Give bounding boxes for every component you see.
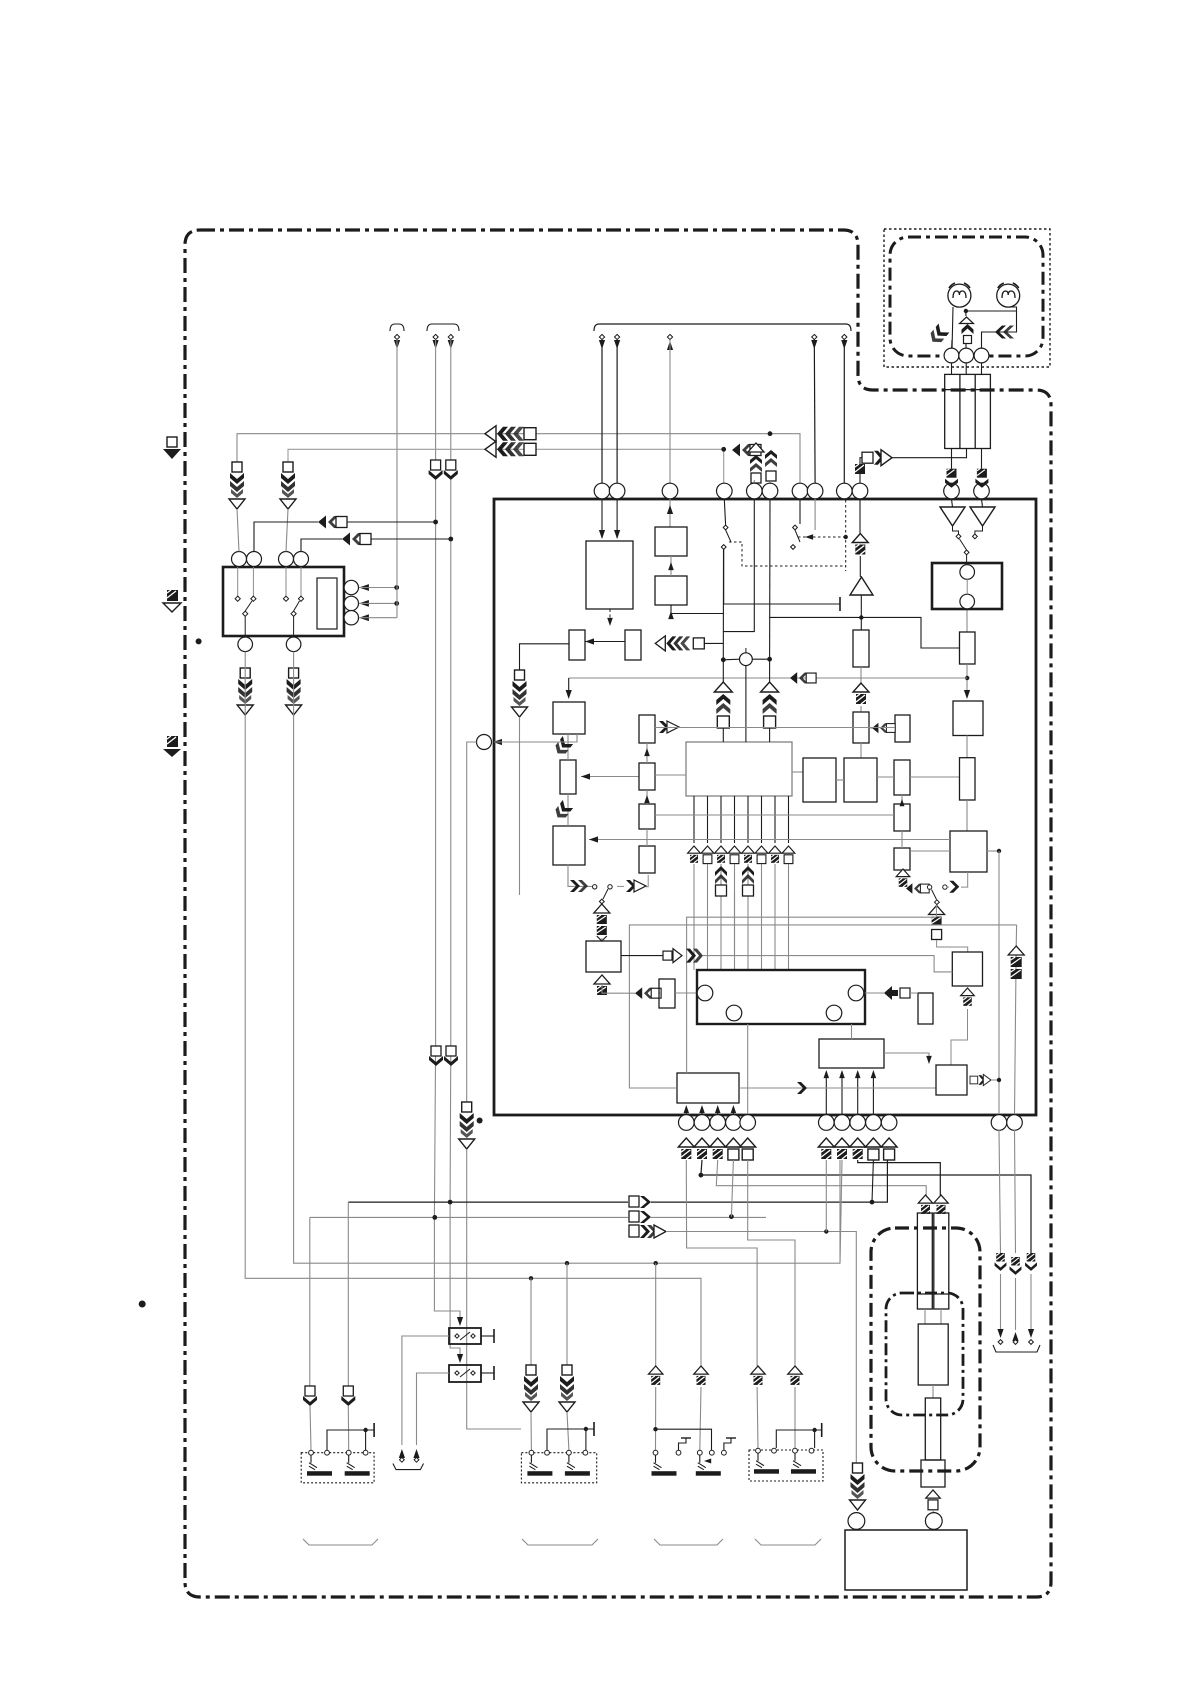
terminal sym under R18: [896, 869, 910, 887]
net y1202 cont: [651, 1160, 887, 1202]
headphone unit dotted enclosure: [884, 229, 1050, 367]
terminal sym row 3: [715, 846, 728, 863]
wire pin747 up: [747, 1024, 749, 1114]
harness W3-2 arrow: [614, 340, 620, 349]
drop g2s2: [566, 1263, 568, 1365]
terminal sym T2 up: [934, 1195, 948, 1214]
terminal sym row 6: [755, 846, 768, 864]
g3 switch 1: [652, 1450, 677, 1475]
U4 pin b: [726, 1005, 742, 1021]
R30 riser 3: [857, 1072, 859, 1114]
bus y678: [569, 677, 968, 679]
U2 output line 7 cont: [774, 864, 776, 970]
connector CN-C2: [280, 462, 296, 509]
wire R10 to U2: [655, 774, 686, 776]
PSU pin 2: [925, 1513, 942, 1530]
net y1248 (pin686 to g4L): [686, 1160, 757, 1366]
U2 output line 6: [761, 796, 763, 843]
wire symH down: [860, 706, 862, 712]
junction y1263 b: [654, 1261, 658, 1265]
U2 output line 3: [720, 796, 722, 843]
lp switch R lever: [932, 890, 937, 900]
connector sym dar mid: [686, 949, 703, 963]
U3 pin b: [960, 594, 975, 609]
dangler K end 2: [414, 1457, 419, 1462]
mode switch block S1: [223, 567, 344, 636]
IC top pin 5: [747, 483, 763, 499]
wire F2 to pin754: [753, 480, 755, 483]
g4 drop: [814, 1430, 816, 1448]
terminal sym R2: [834, 1138, 850, 1159]
S1 pin right 2: [344, 596, 358, 610]
hp jack block divider v1: [959, 374, 961, 448]
U2 output line 2 cont: [707, 864, 709, 970]
S1 switch a contact 1: [237, 567, 239, 596]
block R23: [953, 701, 983, 736]
lp filter switch R contact1: [927, 885, 931, 889]
R30 riser arrow 1: [824, 1070, 830, 1078]
wire W3-1 vertical: [601, 340, 603, 483]
IC top pin 12: [974, 483, 990, 499]
wire U2 to R14: [792, 771, 803, 773]
junction x999: [997, 849, 1001, 853]
junction c1: [721, 657, 726, 662]
g1 contact 2: [325, 1450, 330, 1455]
g1 junction: [363, 1428, 367, 1432]
drop g2s1: [530, 1278, 532, 1365]
g4 cap bar: [821, 1423, 823, 1437]
connector CN-S1a: [303, 1386, 317, 1406]
K1 lever: [460, 1332, 470, 1340]
headphone sub-board dash-dot box: [890, 237, 1043, 356]
g1 switch 1: [307, 1450, 332, 1475]
wire mid to pin860: [860, 458, 862, 483]
harness bracket W2: [427, 324, 459, 331]
wire into R28: [659, 992, 661, 994]
wire G3a to sw: [655, 1387, 657, 1450]
wire lp L out: [617, 885, 624, 887]
bottom-right motor unit dash-dot box: [871, 1228, 980, 1471]
connector CN-L2 (to board): [485, 441, 536, 457]
IC bottom pin F2: [1007, 1115, 1023, 1131]
wire amp down: [860, 595, 862, 630]
U2 output line 8: [788, 796, 790, 843]
wire CN-D1 tail: [347, 521, 436, 523]
g4 bridge: [776, 1430, 821, 1448]
arrow into R32: [926, 1056, 932, 1064]
arrow R11 up: [644, 795, 650, 803]
junction CN-D1: [433, 520, 438, 525]
block R21: [895, 715, 910, 742]
hp jack block divider v2: [974, 374, 976, 448]
IC top pin 11: [944, 483, 960, 499]
wire jack pin1 down: [951, 363, 953, 375]
junction speaker node: [964, 309, 968, 313]
junction dot A: [394, 585, 399, 590]
block R11: [639, 804, 655, 829]
U2 output line 5: [747, 796, 749, 843]
S1 pin top 3: [279, 552, 294, 567]
wire chls to contact: [927, 887, 929, 888]
block R15: [844, 758, 877, 802]
net y1162: [858, 1160, 941, 1196]
wire R9-R10: [646, 743, 648, 763]
connector CN-K3 (long): [629, 1225, 666, 1238]
wire col1 to U2: [722, 728, 724, 742]
junction y1217 b: [729, 1214, 734, 1219]
connector CN-K2: [629, 1211, 651, 1223]
U4 pin c: [826, 1005, 842, 1021]
connector CN-B2: [444, 1046, 458, 1066]
dangler arrow 1: [997, 1329, 1003, 1338]
edge connector M3: [163, 736, 181, 757]
IC bottom pin R5: [881, 1115, 897, 1131]
terminal ext col5: [742, 866, 754, 896]
wire W2a vertical upper: [435, 340, 437, 460]
hp jack pin 3: [974, 348, 989, 363]
wire G4b to sw: [794, 1387, 796, 1448]
wire y678 corner: [568, 678, 570, 696]
main IC block U1: [494, 499, 1036, 1115]
dangler arrow 3: [1028, 1329, 1034, 1338]
arrow into R23: [964, 690, 970, 699]
wire node left: [723, 658, 739, 661]
wire R4 to CN-E: [520, 644, 569, 670]
wire right-pin2 to node: [359, 602, 397, 604]
U4 pin a: [697, 985, 713, 1001]
g1 cap bar: [373, 1423, 375, 1437]
R1 dashed arrow: [607, 618, 613, 626]
SW-B dotted route: [798, 536, 846, 538]
wire SW-A down to cap: [724, 550, 840, 605]
wire R33 down: [951, 1009, 968, 1065]
wire R32 to x999: [991, 1079, 999, 1081]
connector CN-S2a: [523, 1365, 539, 1412]
K1 out right: [481, 1335, 494, 1337]
dangler sym 3: [1025, 1253, 1037, 1271]
wire bus y449: [288, 449, 724, 483]
wire jack pin2 down: [965, 363, 967, 375]
wire R20-R21 link: [869, 727, 872, 729]
dangler bracket: [993, 1345, 1040, 1352]
harness W3-4 arrow: [811, 340, 817, 349]
bus y617: [770, 617, 960, 648]
wire pin860 down: [859, 499, 861, 533]
K2 contact b: [471, 1371, 475, 1375]
wire jack out R: [981, 449, 983, 469]
harness bracket W1: [390, 324, 404, 331]
harness W2a arrow: [433, 340, 439, 349]
dangler K end 1: [400, 1457, 405, 1462]
terminal sym G (on amp input): [852, 534, 868, 555]
fan wire c branch: [734, 892, 736, 956]
g3 switch 2: [696, 1450, 721, 1475]
connector CN-H: [459, 1102, 475, 1149]
g3 arrow: [704, 1459, 711, 1464]
K1 terminal bar: [493, 1329, 495, 1343]
wire F1 dangler: [999, 1130, 1001, 1253]
wire sym to R27: [601, 938, 603, 941]
block R6: [553, 702, 585, 734]
dotted vertical x845: [845, 500, 847, 571]
wire U4 to R29: [865, 992, 884, 994]
block R12: [639, 846, 655, 873]
junction y434: [768, 431, 773, 436]
wire R10-R11: [646, 790, 648, 804]
edge connector M1: [163, 437, 181, 459]
wire pin602 into R1: [601, 499, 603, 538]
wire R5 to R4: [585, 641, 625, 643]
drop g3L: [655, 1263, 657, 1366]
tall block M1a: [917, 1213, 932, 1309]
connector CN-L1 (to board): [485, 426, 536, 442]
wire lp R up: [947, 886, 949, 888]
S1 pin top 2: [247, 552, 262, 567]
wire S1a to sw: [310, 1406, 311, 1450]
K2 terminal bar: [493, 1366, 495, 1380]
net y1240 (pin747 to g4R): [748, 1160, 795, 1366]
connector sym U4-R29: [884, 986, 910, 1000]
chevron on pin860 wire: [855, 464, 865, 474]
net y1278: [245, 652, 701, 1366]
R30 riser 4: [872, 1072, 874, 1114]
g2 cap bar: [593, 1422, 595, 1436]
junction y1263 a: [565, 1261, 569, 1265]
block B2: [655, 576, 687, 605]
IC left pin: [477, 735, 492, 750]
R31 riser 3: [717, 1107, 719, 1114]
S1 switch a diamond 1: [235, 596, 240, 601]
block R9: [639, 715, 655, 743]
S1 pin right 3: [344, 611, 358, 625]
g2 junction: [584, 1427, 588, 1431]
net y1202: [348, 1201, 628, 1203]
S1 switch a pole: [243, 611, 248, 616]
K2 lever: [460, 1369, 470, 1377]
connector CN-G1: [945, 469, 958, 488]
M1 divider: [917, 1293, 948, 1295]
U2 output line 5 cont: [747, 864, 749, 970]
wire W3-4 vertical: [813, 340, 816, 483]
g2 drop: [585, 1429, 587, 1450]
IC bottom pin R2: [834, 1115, 850, 1131]
R31 riser 4: [732, 1107, 734, 1114]
wire CN-E down: [519, 717, 521, 895]
connector sym R9 right: [659, 721, 679, 733]
S1 switch a diamond 2: [251, 596, 256, 601]
group1 dotted box: [301, 1453, 374, 1483]
IC bottom pin L2: [694, 1115, 710, 1131]
connector CN-P (to PSU): [850, 1463, 866, 1510]
terminal sym row 2: [701, 846, 714, 864]
junction amp/y617: [859, 615, 863, 619]
K1 out left: [402, 1336, 449, 1445]
R31 riser arrow 2: [699, 1105, 705, 1113]
lp switch R pole: [935, 900, 940, 905]
S1 switch b diamond 1: [283, 596, 288, 601]
hp resistor sym L: [927, 324, 949, 347]
wire hp M branch: [965, 343, 967, 351]
mute sw contact L: [956, 534, 961, 539]
g2 contact 4: [583, 1450, 588, 1455]
wire sym to R29b: [910, 992, 918, 994]
wire lp L out2: [646, 875, 648, 887]
net y1175: [701, 1160, 1031, 1253]
wire x999 down: [998, 851, 1000, 1114]
terminal sym T1 up: [918, 1195, 932, 1214]
net y1232 to PSU: [666, 1232, 856, 1464]
g3 contact 4: [709, 1450, 714, 1455]
junction c2: [767, 657, 772, 662]
junction y1202 a: [448, 1200, 453, 1205]
connector CN-A2: [444, 460, 458, 480]
g2 switch 2: [565, 1450, 590, 1475]
wire pin617 into R1: [616, 499, 618, 538]
S1 right pin2 arrow: [359, 600, 369, 607]
arrow into B2: [668, 611, 674, 619]
block R33: [952, 952, 982, 986]
g1 switch 2: [345, 1450, 370, 1475]
K2 contact a: [455, 1371, 459, 1375]
terminal sym row 4: [728, 846, 741, 864]
wire leftpin internal: [494, 734, 577, 742]
wire x1014 down: [1015, 925, 1017, 1114]
connector CN-G3 (mid, double arrow right): [862, 450, 892, 466]
hp jack block divider h: [945, 389, 991, 391]
dangler arrow 2: [1012, 1332, 1018, 1341]
wire bus y434 to pin: [770, 434, 800, 483]
mute sw contact R: [973, 534, 978, 539]
harness end W3-3: [667, 334, 672, 339]
wire R7-R8: [567, 794, 569, 826]
vert chevron symbol F3: [765, 450, 777, 481]
R31 riser arrow 1: [684, 1105, 690, 1113]
terminal sym R4: [865, 1138, 881, 1160]
S1 pin top 1: [232, 552, 247, 567]
g3 jog a: [679, 1438, 687, 1450]
terminal sym row 1: [688, 846, 701, 863]
R30 riser arrow 4: [871, 1070, 877, 1078]
wire S1b to sw: [347, 1406, 349, 1450]
wire hp L branch: [951, 340, 954, 351]
wire jack out M: [884, 449, 967, 458]
wire pin754 down: [723, 499, 754, 632]
sym below R27: [594, 975, 610, 995]
R30 riser 1: [825, 1072, 827, 1114]
wire CN-H down: [467, 1149, 521, 1429]
K1 contact a: [455, 1334, 459, 1338]
S1 pin top 4: [294, 552, 309, 567]
wire R16 right: [910, 776, 960, 778]
bus y839: [589, 839, 950, 841]
connector sym on x1016: [1008, 946, 1024, 979]
relay box K2: [449, 1365, 481, 1382]
wire pin873 drop: [872, 1160, 873, 1202]
block R27: [586, 941, 621, 972]
terminal sym H: [853, 683, 869, 704]
terminal sym G3a: [649, 1366, 663, 1385]
wire jack out L: [951, 449, 953, 469]
wire pole chain: [937, 940, 968, 952]
connector sym R32 out: [970, 1074, 991, 1085]
wire pin770 down: [769, 499, 771, 659]
hp resistor sym R: [995, 326, 1014, 339]
g2 contact 2: [545, 1450, 550, 1455]
U2 output line 1: [693, 796, 695, 843]
arrow into R8: [589, 836, 598, 842]
wire G3b to sw: [700, 1387, 701, 1450]
wire pin2 riser: [254, 522, 318, 552]
wire pin4 riser: [301, 539, 342, 552]
harness end W3-4: [812, 334, 817, 339]
wire leftpin external: [467, 742, 477, 1102]
arrow into relay box1: [457, 1317, 463, 1326]
pcb marker dot 1: [196, 638, 202, 644]
U2 output line 8 cont: [788, 864, 790, 970]
U2 output line 3 cont: [720, 864, 722, 970]
block R25: [950, 831, 987, 872]
U2 output line 1 cont: [693, 864, 695, 970]
harness end W1: [394, 334, 399, 339]
wire pin770 cont: [769, 659, 771, 682]
block R22: [960, 632, 976, 664]
g2 bridge: [547, 1429, 594, 1450]
connector CN-C1: [229, 462, 245, 509]
group4 dotted box: [749, 1450, 823, 1481]
connector CN-B1: [429, 1046, 443, 1066]
lp filter switch R contact2: [943, 885, 947, 889]
U2 output line 4: [734, 796, 736, 843]
block R14: [803, 758, 836, 802]
wire W1 vertical: [396, 340, 398, 618]
block R5: [625, 630, 641, 660]
net y1217 cont: [651, 1216, 766, 1218]
S1 switch a lever: [245, 601, 252, 611]
wire M1b down: [940, 1309, 942, 1324]
R1 dashed out: [609, 609, 611, 622]
g2 switch 1: [527, 1450, 552, 1475]
R31 riser 2: [701, 1107, 703, 1114]
cap terminal T0: [839, 597, 841, 611]
switch SW-B contact bot: [791, 545, 796, 550]
block M4: [921, 1460, 945, 1487]
wire R31 right: [739, 1087, 936, 1089]
group1 brace: [303, 1539, 378, 1545]
block R32: [936, 1065, 967, 1095]
terminal sym G4a: [751, 1366, 765, 1385]
terminal sym L4: [725, 1138, 741, 1160]
sym on y678 bus: [790, 672, 816, 684]
S1 bottom pin2 connector: [286, 668, 302, 715]
arrow on dotted: [805, 534, 813, 540]
wire bus y434: [237, 434, 770, 462]
terminal sym G3b: [694, 1366, 708, 1385]
S1 switch a wire down: [244, 616, 246, 637]
arrow into R4: [585, 638, 594, 644]
block B1: [655, 527, 687, 556]
K2 out left: [417, 1373, 450, 1445]
relay box K1: [449, 1328, 481, 1344]
wire pin981 to V2: [982, 499, 983, 507]
g4 contact 2: [772, 1448, 777, 1453]
S1 right pin1 arrow: [359, 584, 369, 591]
S1 pin bottom 1: [238, 637, 253, 652]
wire W3-2 vertical: [616, 340, 618, 483]
arrow R10 up: [644, 748, 650, 756]
g3 jog a cap: [681, 1437, 691, 1439]
net g1L vertical: [309, 1217, 311, 1386]
signal block U4 (bold): [697, 970, 865, 1024]
